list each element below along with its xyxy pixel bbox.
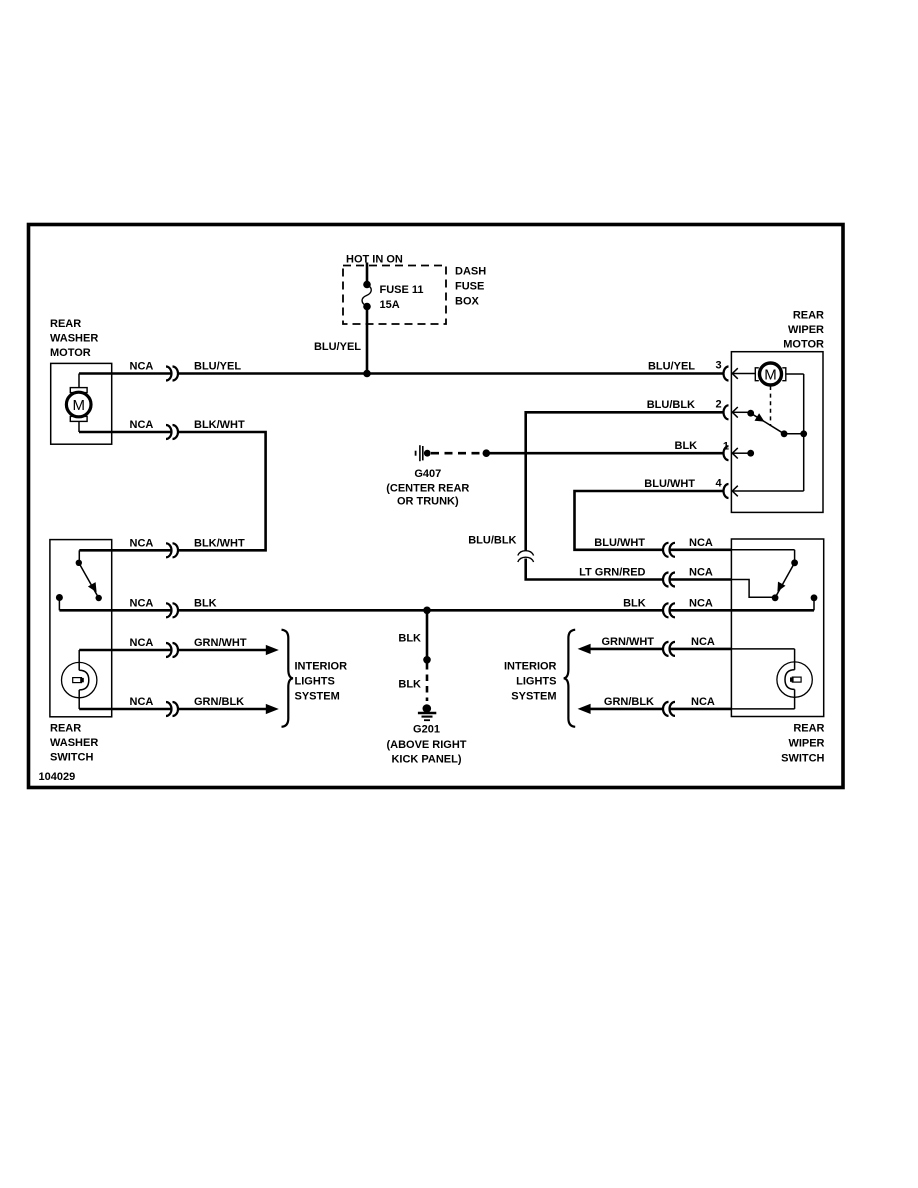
motor M1 washer xyxy=(66,374,91,433)
wire BLK ground bus xyxy=(59,609,171,612)
svg-text:SYSTEM: SYSTEM xyxy=(295,691,340,703)
svg-text:BLK: BLK xyxy=(398,679,421,691)
label INTERIOR LIGHTS SYSTEM right xyxy=(504,661,557,703)
svg-text:INTERIOR: INTERIOR xyxy=(295,661,348,673)
svg-text:NCA: NCA xyxy=(130,696,154,708)
pin 1 connector xyxy=(723,441,738,461)
svg-text:LIGHTS: LIGHTS xyxy=(295,676,335,688)
rear wiper motor box xyxy=(731,352,823,513)
svg-text:BOX: BOX xyxy=(455,296,480,308)
wire BLK/WHT washer motor to switch xyxy=(79,431,171,434)
svg-text:NCA: NCA xyxy=(689,598,713,610)
svg-text:BLU/YEL: BLU/YEL xyxy=(194,361,241,373)
node junction BLU/YEL xyxy=(363,370,371,378)
svg-text:4: 4 xyxy=(715,477,722,489)
node junction BLK/G201 xyxy=(423,607,431,615)
pin 4 connector xyxy=(644,477,738,498)
label G201 xyxy=(386,724,466,766)
wire GRN/WHT left xyxy=(79,649,171,652)
wiper motor internal wiring xyxy=(733,374,808,491)
svg-text:BLK/WHT: BLK/WHT xyxy=(194,537,245,549)
wire LT GRN/RED xyxy=(526,559,663,580)
wire BLU/WHT pin4 xyxy=(575,491,724,550)
label REAR WIPER MOTOR xyxy=(783,310,824,351)
svg-text:SWITCH: SWITCH xyxy=(50,752,93,764)
svg-text:BLK/WHT: BLK/WHT xyxy=(194,419,245,431)
wire BLU/YEL main xyxy=(79,372,171,375)
svg-text:NCA: NCA xyxy=(691,696,715,708)
wire BLU/YEL fuse drop xyxy=(366,307,369,374)
connector on BLK/WHT lower xyxy=(166,543,172,557)
svg-text:BLU/WHT: BLU/WHT xyxy=(594,537,645,549)
svg-text:NCA: NCA xyxy=(689,567,713,579)
svg-text:NCA: NCA xyxy=(130,637,154,649)
wire BLU/BLK xyxy=(526,412,724,551)
svg-text:REAR: REAR xyxy=(50,318,81,330)
rear washer motor box xyxy=(51,363,112,444)
svg-text:WASHER: WASHER xyxy=(50,333,98,345)
svg-text:LT GRN/RED: LT GRN/RED xyxy=(579,567,645,579)
svg-text:MOTOR: MOTOR xyxy=(50,347,91,359)
svg-text:NCA: NCA xyxy=(130,537,154,549)
svg-text:GRN/WHT: GRN/WHT xyxy=(601,636,654,648)
svg-text:M: M xyxy=(764,366,777,383)
svg-text:NCA: NCA xyxy=(130,419,154,431)
switch S1 washer xyxy=(56,550,102,610)
svg-text:INTERIOR: INTERIOR xyxy=(504,661,557,673)
svg-text:BLK: BLK xyxy=(194,598,217,610)
brace interior lights right xyxy=(564,630,576,727)
lamp L1 washer switch xyxy=(61,650,96,709)
node splice BLK xyxy=(483,449,491,457)
svg-text:BLK: BLK xyxy=(398,633,421,645)
svg-text:WIPER: WIPER xyxy=(788,324,824,336)
label REAR WASHER SWITCH xyxy=(50,723,98,764)
frame border xyxy=(29,225,844,788)
wire GRN/BLK left xyxy=(79,708,171,711)
wire GRN/BLK right xyxy=(578,704,591,714)
motor M2 wiper xyxy=(733,363,786,385)
wire GRN/WHT right xyxy=(578,644,591,654)
connector on BLK/WHT upper xyxy=(166,425,172,439)
label G407 xyxy=(386,468,469,508)
ground G201 xyxy=(418,704,436,720)
label DASH FUSE BOX xyxy=(455,266,486,308)
svg-text:(ABOVE RIGHT: (ABOVE RIGHT xyxy=(386,739,466,751)
label REAR WIPER SWITCH xyxy=(781,723,824,765)
svg-text:BLK: BLK xyxy=(623,598,646,610)
svg-text:M: M xyxy=(72,397,85,414)
svg-text:BLU/WHT: BLU/WHT xyxy=(644,478,695,490)
svg-text:SYSTEM: SYSTEM xyxy=(511,691,556,703)
svg-text:NCA: NCA xyxy=(689,537,713,549)
svg-text:KICK PANEL): KICK PANEL) xyxy=(391,754,461,766)
svg-text:NCA: NCA xyxy=(130,598,154,610)
svg-text:BLU/YEL: BLU/YEL xyxy=(648,360,695,372)
svg-text:2: 2 xyxy=(715,398,721,410)
svg-text:WASHER: WASHER xyxy=(50,737,98,749)
ground G407 xyxy=(416,445,431,461)
svg-text:(CENTER REAR: (CENTER REAR xyxy=(386,483,469,495)
svg-text:WIPER: WIPER xyxy=(788,738,824,750)
svg-text:BLU/BLK: BLU/BLK xyxy=(468,535,516,547)
connector on BLK left xyxy=(166,603,172,617)
label REAR WASHER MOTOR xyxy=(50,318,98,359)
svg-text:REAR: REAR xyxy=(793,310,824,322)
svg-text:BLU/BLK: BLU/BLK xyxy=(647,399,695,411)
splice break symbol xyxy=(518,551,534,556)
wire BLK drop to G201 xyxy=(426,610,429,658)
svg-text:NCA: NCA xyxy=(691,636,715,648)
connector on BLU/YEL xyxy=(166,367,172,381)
wiper switch internals xyxy=(731,550,817,670)
svg-text:15A: 15A xyxy=(380,299,400,311)
svg-text:HOT IN ON: HOT IN ON xyxy=(346,254,403,266)
svg-text:GRN/WHT: GRN/WHT xyxy=(194,637,247,649)
svg-text:NCA: NCA xyxy=(130,361,154,373)
svg-text:1: 1 xyxy=(723,441,729,453)
svg-text:G201: G201 xyxy=(413,724,440,736)
rear wiper switch box xyxy=(731,539,823,717)
brace interior lights left xyxy=(282,630,294,727)
svg-text:REAR: REAR xyxy=(793,723,824,735)
svg-text:REAR: REAR xyxy=(50,723,81,735)
dash fuse box dashed outline xyxy=(343,266,446,325)
node splice xyxy=(423,656,431,664)
svg-text:FUSE: FUSE xyxy=(455,281,484,293)
rear washer switch box xyxy=(50,540,112,717)
pin 3 connector xyxy=(648,360,738,381)
svg-text:GRN/BLK: GRN/BLK xyxy=(194,696,244,708)
fuse F11 (FUSE 11 15A) xyxy=(362,281,423,311)
svg-text:FUSE 11: FUSE 11 xyxy=(380,284,424,296)
wire BLK to wiper motor pin1 xyxy=(486,452,723,455)
pin 2 connector xyxy=(647,398,738,419)
svg-text:MOTOR: MOTOR xyxy=(783,339,824,351)
svg-text:BLU/YEL: BLU/YEL xyxy=(314,341,361,353)
wire from HOT IN ON to fuse xyxy=(366,263,369,285)
svg-text:SWITCH: SWITCH xyxy=(781,753,824,765)
connector on BLK right xyxy=(663,603,669,617)
svg-text:104029: 104029 xyxy=(39,771,76,783)
svg-text:LIGHTS: LIGHTS xyxy=(516,676,556,688)
svg-text:BLK: BLK xyxy=(675,440,698,452)
svg-text:DASH: DASH xyxy=(455,266,486,278)
svg-text:G407: G407 xyxy=(414,468,441,480)
lamp L2 wiper switch xyxy=(731,662,812,709)
svg-text:3: 3 xyxy=(715,360,721,372)
svg-text:OR TRUNK): OR TRUNK) xyxy=(397,496,459,508)
wire BLK to G407 dashed xyxy=(431,452,481,455)
label INTERIOR LIGHTS SYSTEM left xyxy=(295,661,348,703)
svg-text:GRN/BLK: GRN/BLK xyxy=(604,696,654,708)
